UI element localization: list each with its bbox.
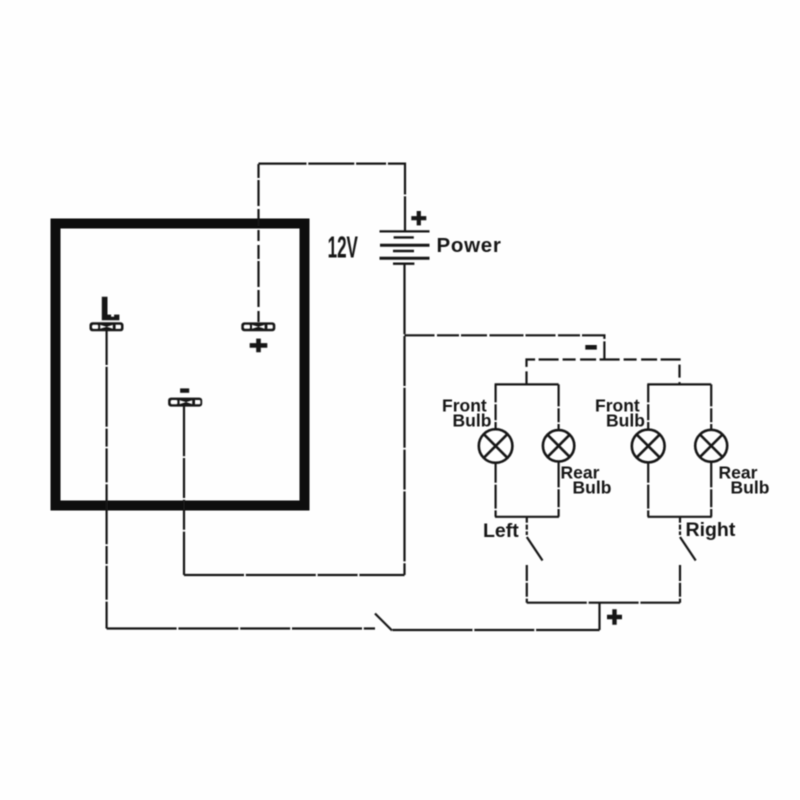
svg-text:Right: Right xyxy=(686,519,736,541)
wire - to battery negative vertical xyxy=(184,574,405,576)
label Left xyxy=(483,520,519,542)
wire bottom long run (left) xyxy=(107,627,375,629)
wire from - terminal down xyxy=(183,406,185,575)
label + (inside box) xyxy=(250,339,268,353)
label Rear Bulb (left) xyxy=(561,463,612,498)
battery B1 xyxy=(380,231,430,263)
svg-text:Bulb: Bulb xyxy=(453,410,492,430)
lamp: right front bulb xyxy=(632,430,665,463)
wire splitter to left and right lamp groups xyxy=(527,360,680,385)
wire plus rail drop xyxy=(598,603,600,630)
switch left (turn selector) xyxy=(527,517,543,603)
terminal L xyxy=(90,322,124,331)
label Rear Bulb (right) xyxy=(719,463,770,498)
svg-text:Power: Power xyxy=(437,234,502,257)
relay box (flasher unit) xyxy=(56,224,305,506)
label L xyxy=(102,297,120,321)
terminal - xyxy=(168,398,202,407)
right lamp group frame xyxy=(647,384,712,516)
wire plus rail under switches xyxy=(527,602,680,604)
wire battery negative to bulbs (minus feed) xyxy=(405,335,605,359)
wire battery negative down xyxy=(403,264,405,575)
label Right xyxy=(686,519,736,541)
lamp: right rear bulb xyxy=(695,430,727,462)
label + (bottom) xyxy=(607,609,622,625)
svg-text:Bulb: Bulb xyxy=(606,410,645,430)
wire from + terminal up through box top xyxy=(257,164,259,322)
left lamp group frame xyxy=(495,384,559,516)
label + (battery) xyxy=(411,211,426,225)
label - (inside box) xyxy=(180,388,189,392)
svg-text:Left: Left xyxy=(483,520,519,542)
wire from L terminal down to bottom rail xyxy=(105,331,107,629)
lamp: left rear bulb xyxy=(543,430,574,461)
svg-text:Bulb: Bulb xyxy=(731,477,770,497)
terminal + xyxy=(241,322,275,331)
label 12V xyxy=(328,230,359,265)
wire top: relay + to battery + xyxy=(259,164,406,231)
label - (bulb feed) xyxy=(585,345,597,350)
switch right (turn selector) xyxy=(680,517,696,603)
lamp: left front bulb xyxy=(479,429,513,463)
label Power xyxy=(437,234,502,257)
label Front Bulb (left) xyxy=(442,396,491,431)
svg-text:Bulb: Bulb xyxy=(573,477,612,497)
svg-text:12V: 12V xyxy=(328,230,359,265)
label Front Bulb (right) xyxy=(595,396,645,431)
wire bottom long run (right) xyxy=(393,629,600,631)
switch main flasher blade xyxy=(375,614,392,631)
